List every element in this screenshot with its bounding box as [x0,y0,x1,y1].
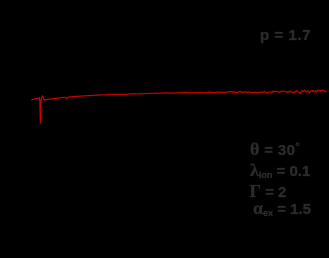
label alpha_ex = 1.5 [253,199,311,218]
curve trace with dip spike and noisy tail [32,90,326,123]
label lambda_ion = 0.1 [250,161,310,180]
label theta = 30 deg [250,140,300,158]
label Gamma = 2 [250,182,287,200]
label p = 1.7 [260,28,311,43]
